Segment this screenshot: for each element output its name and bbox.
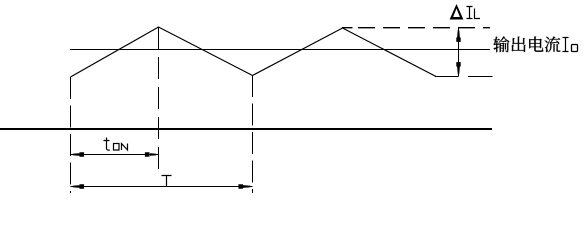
label char 出: [512, 37, 526, 52]
time axis: [0, 128, 492, 130]
peak level dashed line: [342, 27, 490, 29]
dashed extension line at tON end: [158, 27, 160, 169]
label I of delta-IL: [467, 7, 473, 19]
label char 输: [493, 36, 509, 52]
valley level dash: [468, 76, 493, 78]
label char 电: [529, 37, 543, 52]
dashed extension line at period end: [252, 75, 254, 193]
dashed extension line at period start: [70, 77, 72, 193]
label char 流: [545, 37, 561, 53]
label I of Io: [563, 38, 569, 52]
ripple arrow up head: [456, 28, 460, 42]
tON dimension line: [71, 154, 159, 156]
tON left arrowhead: [71, 152, 85, 157]
inductor ripple current waveform: [71, 27, 437, 77]
T dimension line: [71, 186, 253, 188]
average output current level line: [70, 49, 490, 51]
label L subscript of delta-IL: [475, 9, 481, 19]
label o subscript of Io: [572, 45, 578, 52]
tON right arrowhead: [145, 152, 159, 157]
label N subscript of tON: [122, 144, 128, 151]
waveform flat valley segment: [435, 76, 459, 78]
ripple arrow down head: [456, 62, 460, 76]
ripple amplitude arrow line: [458, 28, 460, 77]
T right arrowhead: [238, 184, 252, 189]
label delta symbol: [450, 4, 464, 20]
label O subscript of tON: [114, 144, 120, 151]
label t of tON: [104, 138, 110, 151]
label T of period: [162, 176, 172, 188]
T left arrowhead: [71, 184, 85, 189]
